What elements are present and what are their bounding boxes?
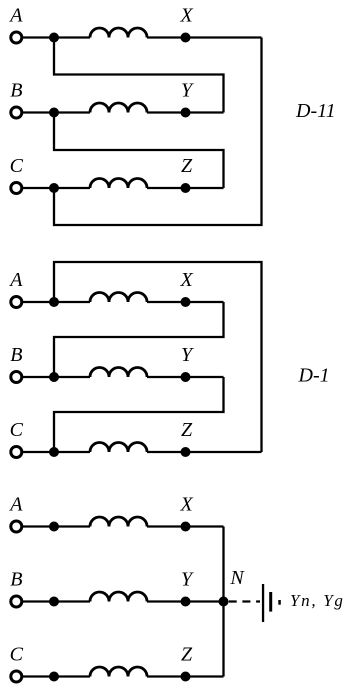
svg-text:B: B xyxy=(10,80,22,102)
svg-text:X: X xyxy=(179,494,193,516)
svg-text:B: B xyxy=(10,344,22,366)
svg-text:Yn, Yg: Yn, Yg xyxy=(290,591,345,610)
svg-text:A: A xyxy=(8,269,23,291)
svg-text:Z: Z xyxy=(181,419,193,441)
svg-text:Y: Y xyxy=(181,80,194,102)
svg-text:A: A xyxy=(8,494,23,516)
svg-text:Z: Z xyxy=(181,155,193,177)
svg-text:D-11: D-11 xyxy=(295,100,336,122)
svg-text:A: A xyxy=(8,5,23,27)
svg-text:D-1: D-1 xyxy=(298,365,330,387)
svg-text:Y: Y xyxy=(181,344,194,366)
svg-text:C: C xyxy=(10,419,24,441)
svg-text:B: B xyxy=(10,569,22,591)
svg-text:C: C xyxy=(10,155,24,177)
svg-text:Z: Z xyxy=(181,644,193,666)
svg-text:X: X xyxy=(179,5,193,27)
svg-text:N: N xyxy=(229,567,245,589)
svg-text:X: X xyxy=(179,269,193,291)
svg-text:Y: Y xyxy=(181,569,194,591)
svg-text:C: C xyxy=(10,644,24,666)
